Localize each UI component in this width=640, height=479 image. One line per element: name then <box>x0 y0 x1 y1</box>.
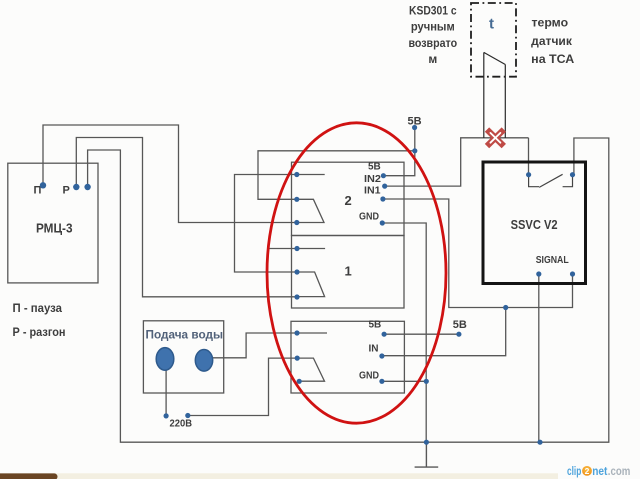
relay 1 pin1 node <box>294 246 299 251</box>
SSVC switch node left <box>526 172 531 177</box>
svg-text:2: 2 <box>585 466 590 476</box>
relay 1 pin2 node <box>294 269 299 274</box>
relay module 1 box <box>292 236 405 309</box>
wire Р1 to relay1 pin3 <box>76 138 297 297</box>
wire 220V to relay3 pin2 <box>188 358 297 415</box>
block RMC-3 <box>8 163 98 283</box>
relay module 3 box <box>291 321 404 393</box>
node 5V junction <box>412 148 417 153</box>
relay 3 pin GND node <box>379 379 384 384</box>
node 220V terminal 2 <box>185 413 190 418</box>
wire SSVC signal left to bottom rail <box>538 274 540 442</box>
relay 2 pin1 node <box>294 172 299 177</box>
relay 2 pin IN2 node <box>382 184 387 189</box>
svg-text:t: t <box>489 16 494 33</box>
svg-text:Р: Р <box>63 185 70 197</box>
SSVC switch contact right <box>563 175 573 187</box>
node Р1 <box>73 184 79 190</box>
SSVC signal node left <box>536 271 541 276</box>
svg-text:net: net <box>592 464 607 478</box>
relay 1 pin3 node <box>294 294 299 299</box>
svg-text:П - пауза: П - пауза <box>13 301 63 315</box>
svg-text:термо: термо <box>532 16 569 30</box>
node П <box>40 182 46 188</box>
bottom beige strip <box>0 473 558 479</box>
svg-text:2: 2 <box>345 193 352 208</box>
ground <box>415 442 439 467</box>
relay 2 pin IN1 node <box>380 196 385 201</box>
svg-text:1: 1 <box>345 264 352 279</box>
node ground rail junction <box>424 440 429 445</box>
relay 3 switch <box>297 358 324 381</box>
wire 5V feed to relay2 pin2 <box>258 128 415 200</box>
relay 2 pin2 node <box>294 197 299 202</box>
label thermo sensor note <box>531 16 574 66</box>
svg-text:5В: 5В <box>453 319 467 331</box>
svg-text:SIGNAL: SIGNAL <box>536 255 569 266</box>
wire signal junction to relay3 IN <box>382 308 506 356</box>
svg-text:м: м <box>428 52 437 66</box>
node 5V top terminal <box>412 125 417 130</box>
node signal rail junction <box>537 440 542 445</box>
wire 5V junction to relay2 5V pin <box>383 151 414 176</box>
wire Р2 mains loop to SSVC switch right <box>88 138 609 442</box>
svg-text:220В: 220В <box>170 419 193 430</box>
wire valve2 to relay3 pin1 <box>213 333 327 358</box>
relay module 2 box <box>292 162 405 235</box>
relay 3 pin3 node <box>297 379 302 384</box>
node 220V terminal 1 <box>164 413 169 418</box>
SSVC switch node right <box>570 172 575 177</box>
valve 1 <box>156 348 174 371</box>
thermostat symbol <box>484 52 506 138</box>
wire SSVC signal right to relay2 IN1 <box>383 199 573 308</box>
svg-text:5В: 5В <box>368 162 381 173</box>
red X broken connection <box>489 132 501 144</box>
relay 1 switch <box>297 272 325 297</box>
water supply box <box>143 321 223 393</box>
svg-text:датчик: датчик <box>531 34 573 48</box>
node 5V right terminal <box>456 332 461 337</box>
wire relay3 GND <box>382 380 426 382</box>
relay 3 pin 5V node <box>382 332 387 337</box>
label KSD301 note <box>408 4 457 67</box>
node signal junction <box>503 305 508 310</box>
relay 3 pin2 node <box>295 356 300 361</box>
wire relay2 GND down to bottom rail <box>382 223 426 442</box>
svg-text:Р - разгон: Р - разгон <box>13 325 66 339</box>
SSVC V2 box <box>483 162 586 284</box>
svg-text:.com: .com <box>608 466 631 478</box>
svg-text:SSVC V2: SSVC V2 <box>511 217 558 232</box>
wire thermostat to relay2 IN2 <box>385 138 529 186</box>
clip2net logo <box>567 464 630 478</box>
wire П to relay2 pin3 <box>43 125 297 223</box>
wire relay1 pin1 stub <box>268 248 326 250</box>
relay 3 pin IN node <box>379 353 384 358</box>
SSVC switch blade <box>539 174 562 187</box>
svg-text:GND: GND <box>359 371 379 382</box>
valve 2 <box>195 350 212 372</box>
svg-text:ручным: ручным <box>411 20 455 34</box>
thermostat KSD301 dashed box <box>471 3 516 77</box>
svg-text:на ТСА: на ТСА <box>531 52 574 66</box>
svg-text:IN2: IN2 <box>364 174 381 185</box>
relay 2 pin3 node <box>294 220 299 225</box>
svg-text:clip: clip <box>567 464 581 478</box>
wire relay3 5V stub <box>384 333 459 335</box>
svg-text:РМЦ-3: РМЦ-3 <box>36 222 73 236</box>
svg-text:Подача воды: Подача воды <box>146 330 224 342</box>
wire relay2 pin1 to relay1 pin2 <box>235 175 325 273</box>
SSVC signal node right <box>570 271 575 276</box>
node Р2 <box>84 184 90 190</box>
svg-text:возврато: возврато <box>408 36 457 50</box>
relay 2 pin 5V node <box>381 173 386 178</box>
relay 3 pin1 node <box>294 330 299 335</box>
node relay3 GND junction <box>424 379 429 384</box>
svg-text:IN1: IN1 <box>364 185 381 196</box>
wire to SSVC switch left <box>528 138 530 175</box>
svg-text:GND: GND <box>359 212 379 223</box>
svg-text:IN: IN <box>369 344 379 355</box>
relay 2 pin GND node <box>380 220 385 225</box>
wire valve1 to 220V <box>165 369 167 416</box>
svg-text:KSD301 с: KSD301 с <box>409 4 457 18</box>
bottom brown progress bar <box>0 473 58 479</box>
SSVC switch contact left <box>529 175 539 187</box>
svg-text:5В: 5В <box>369 320 382 331</box>
red highlight ellipse <box>267 123 446 423</box>
relay 2 switch <box>297 199 324 222</box>
